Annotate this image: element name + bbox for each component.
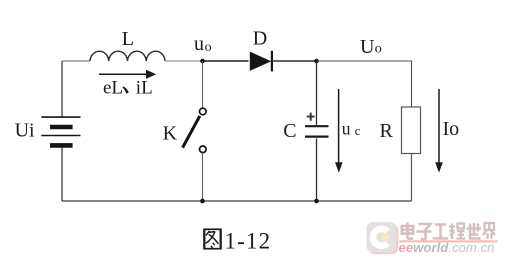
wire: top rail left segment — [62, 60, 90, 62]
resistor R body — [402, 107, 421, 154]
eL iL current arrow — [99, 73, 147, 75]
wire: inductor to node uo — [165, 60, 203, 62]
node uo junction dot — [200, 59, 205, 64]
junction dot capacitor-bottom — [314, 199, 319, 204]
wire: top right rail to corner and down to resistor — [317, 61, 412, 107]
plus polarity mark — [307, 113, 315, 121]
watermark hanzi 电 — [402, 223, 414, 239]
svg-text:C: C — [283, 120, 296, 142]
watermark logo yellow dot — [381, 233, 389, 241]
wire: switch to bottom rail — [202, 153, 204, 201]
wire: battery bottom to bottom rail — [61, 148, 63, 201]
svg-text:o: o — [375, 42, 382, 57]
svg-text:iL: iL — [136, 77, 153, 98]
svg-text:eL: eL — [103, 77, 123, 98]
svg-text:K: K — [163, 123, 178, 145]
watermark hanzi 子 — [417, 224, 432, 239]
inductor L — [90, 51, 165, 61]
wire: left rail top (source to top rail) — [61, 61, 63, 117]
svg-text:c: c — [355, 124, 361, 138]
svg-text:u: u — [194, 33, 204, 55]
junction dot switch-bottom — [200, 199, 205, 204]
svg-text:L: L — [122, 28, 134, 50]
node Uo junction dot — [314, 59, 319, 64]
watermark hanzi 工 — [433, 225, 448, 239]
svg-text:R: R — [380, 120, 394, 142]
wire: diode to node Uo — [272, 60, 317, 62]
watermark hanzi 程 — [449, 224, 465, 240]
diode D — [250, 52, 271, 71]
svg-text:Io: Io — [443, 118, 460, 140]
switch K blade — [183, 116, 200, 148]
watermark logo C mark — [373, 229, 388, 246]
switch K lower contact — [200, 146, 207, 153]
watermark logo tile — [367, 222, 397, 253]
watermark hanzi 界 — [483, 223, 495, 239]
wire: node Uo down to capacitor — [316, 61, 318, 125]
watermark logo shadow — [368, 224, 398, 255]
svg-text:o: o — [205, 40, 212, 55]
Io current arrow — [438, 89, 440, 163]
svg-text:D: D — [253, 27, 267, 49]
watermark underline — [399, 240, 497, 242]
svg-text:U: U — [360, 36, 375, 58]
svg-text:u: u — [342, 119, 351, 139]
uc voltage arrow — [338, 89, 340, 163]
wire: resistor bottom to bottom rail — [411, 154, 413, 202]
battery source Ui — [41, 117, 80, 145]
watermark hanzi 世 — [467, 223, 482, 239]
svg-text:Ui: Ui — [15, 120, 35, 142]
svg-text:1-12: 1-12 — [225, 229, 272, 254]
wire: node uo down to switch — [202, 61, 204, 108]
svg-text:eeworld.com.cn: eeworld.com.cn — [399, 240, 495, 255]
switch K upper contact — [200, 108, 207, 115]
capacitor C plates — [305, 125, 329, 127]
ideographic comma in eL、iL — [122, 86, 128, 93]
caption glyph 图 — [204, 229, 220, 250]
wire: capacitor to bottom rail — [316, 138, 318, 201]
